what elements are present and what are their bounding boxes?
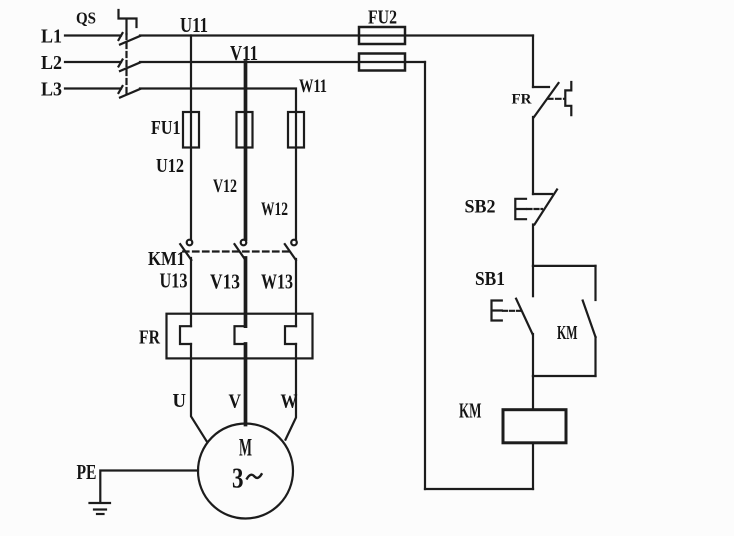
contactor KM1 pole V terminal circle	[241, 240, 247, 246]
svg-text:SB1: SB1	[475, 268, 505, 290]
wire L3 to W11 corner	[140, 89, 296, 113]
wire L1 feed	[65, 34, 121, 36]
wire L2 feed	[65, 61, 121, 63]
svg-text:U12: U12	[156, 155, 184, 177]
svg-text:FR: FR	[512, 92, 532, 108]
motor label tilde	[247, 474, 262, 478]
contactor KM1 linkage dashed	[183, 250, 291, 252]
svg-text:3: 3	[232, 464, 244, 495]
switch QS pole 3 blade	[120, 89, 140, 98]
wire parallel bottom	[533, 375, 596, 377]
wire junction to coil	[532, 376, 534, 410]
wire W11 branch	[295, 112, 297, 240]
wire FR to SB2	[532, 117, 534, 194]
button SB1 actuator E	[492, 301, 502, 321]
fuse FU1 pole U	[183, 112, 199, 148]
svg-text:L1: L1	[41, 26, 62, 48]
svg-text:SB2: SB2	[465, 197, 496, 218]
svg-text:FU1: FU1	[151, 117, 181, 139]
ground bar 2	[94, 508, 106, 510]
contactor KM1 pole U blade	[180, 244, 191, 260]
contactor KM1 pole V blade	[235, 244, 246, 260]
relay FR crank symbol	[565, 82, 571, 115]
svg-text:FU2: FU2	[368, 7, 397, 29]
wire L2 to return corner	[140, 61, 425, 63]
wire control return drop	[424, 62, 426, 489]
relay FR link dashed	[548, 98, 565, 100]
svg-text:W12: W12	[261, 199, 288, 220]
svg-text:U11: U11	[180, 13, 208, 37]
svg-text:KM: KM	[557, 322, 578, 344]
relay FR contact fixed bar	[533, 86, 549, 88]
wire L3 feed	[65, 87, 121, 89]
svg-text:W: W	[281, 391, 298, 413]
button SB1 top wire	[532, 266, 534, 296]
motor M circle	[198, 424, 293, 519]
button SB1 bottom wire	[532, 334, 534, 376]
coil KM	[503, 410, 566, 443]
contact KM bottom wire	[594, 337, 596, 376]
thermal relay FR box	[167, 314, 313, 359]
wire motor U lead	[191, 344, 207, 441]
button SB2 actuator E	[515, 199, 526, 219]
button SB2 fixed bar	[533, 193, 552, 195]
fuse FU2 upper	[359, 27, 405, 44]
contact KM top wire	[594, 266, 596, 300]
ground bar 3	[97, 513, 104, 515]
contactor KM1 pole W blade	[285, 244, 296, 260]
svg-text:KM: KM	[459, 399, 482, 423]
contact KM blade	[583, 301, 596, 338]
svg-text:V: V	[229, 391, 242, 413]
svg-text:PE: PE	[77, 460, 97, 484]
switch QS pole 2 blade	[120, 63, 140, 72]
switch QS pole 2 pivot tick	[119, 60, 123, 67]
button SB1 link dashed	[503, 310, 520, 312]
svg-text:W13: W13	[261, 270, 293, 294]
svg-text:FR: FR	[139, 327, 160, 349]
relay FR contact blade	[534, 83, 559, 117]
svg-text:M: M	[239, 435, 252, 462]
svg-text:V13: V13	[210, 270, 240, 294]
wire control bottom	[425, 488, 533, 490]
thermal relay FR heater V	[235, 326, 246, 344]
svg-text:L2: L2	[41, 52, 62, 74]
thermal relay FR heater U	[180, 326, 191, 344]
fuse FU1 pole V	[237, 112, 253, 148]
switch QS handle	[119, 10, 137, 34]
fuse FU2 lower	[359, 54, 405, 71]
thermal relay FR heater W	[285, 326, 296, 344]
switch QS pole 1 blade	[120, 36, 140, 45]
svg-text:W11: W11	[299, 76, 327, 97]
wire coil to bottom	[532, 443, 534, 489]
switch QS pole 3 pivot tick	[119, 86, 123, 93]
contactor KM1 pole U terminal circle	[187, 240, 193, 246]
ground bar 1	[90, 502, 111, 504]
wire motor V lead bold	[244, 344, 248, 425]
svg-text:L3: L3	[41, 79, 62, 101]
wire V11 branch bold	[244, 62, 248, 239]
svg-text:KM1: KM1	[148, 248, 185, 270]
wire PE	[100, 471, 198, 503]
button SB1 blade	[516, 299, 532, 334]
contactor KM1 pole W terminal circle	[291, 240, 297, 246]
wire U11 branch	[190, 36, 192, 240]
svg-text:V12: V12	[213, 176, 237, 197]
wire L1 to control corner	[140, 34, 533, 36]
fuse FU1 pole W	[288, 112, 304, 148]
wire SB2 to junction	[532, 225, 534, 266]
switch QS pole 1 pivot tick	[119, 33, 123, 40]
wire V13 segment bold	[244, 258, 248, 326]
svg-text:U13: U13	[160, 269, 188, 293]
button SB2 link dashed	[528, 208, 543, 210]
svg-text:U: U	[173, 390, 187, 412]
wire U13 segment	[190, 258, 192, 326]
switch QS linkage dashed	[125, 34, 127, 97]
wire control hot drop	[532, 36, 534, 88]
svg-text:QS: QS	[76, 9, 96, 28]
button SB2 blade	[535, 190, 558, 225]
wire motor W lead	[286, 344, 297, 440]
wire parallel top	[533, 265, 596, 267]
wire W13 segment	[295, 259, 297, 326]
